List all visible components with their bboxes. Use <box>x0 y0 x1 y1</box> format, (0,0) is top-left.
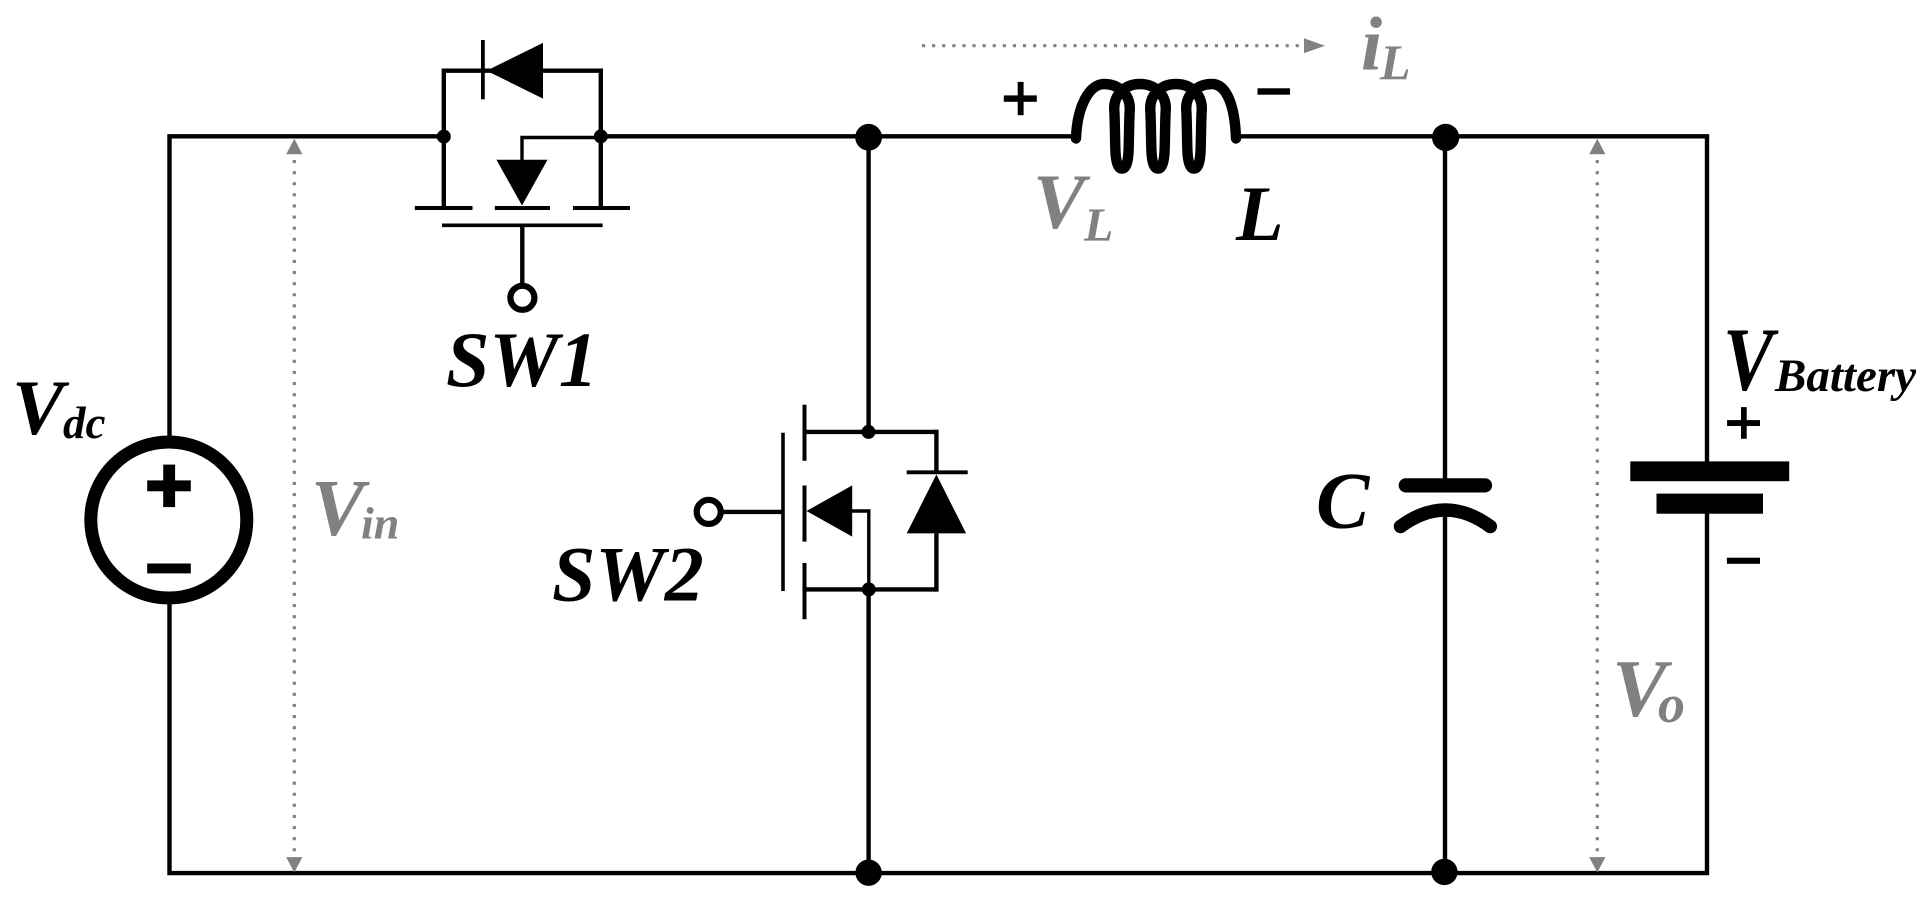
wire: capacitor column lower <box>1443 507 1447 872</box>
transistor SW1 (MOSFET with body diode) <box>415 40 630 310</box>
svg-text:C: C <box>1316 458 1371 546</box>
SW2 source contact bar <box>803 563 807 619</box>
SW2 gate lead <box>723 510 784 514</box>
svg-text:Battery: Battery <box>1774 350 1916 402</box>
transistor SW2 (MOSFET with body diode) <box>697 405 968 620</box>
SW1 body contact bar <box>495 206 550 210</box>
SW2 gate terminal circle <box>697 500 721 524</box>
iL dotted current arrow <box>922 38 1325 53</box>
wire: top rail right segment + right branch upper <box>1236 136 1707 461</box>
capacitor C <box>1399 478 1492 526</box>
SW1 right vertical lead <box>599 69 603 207</box>
capacitor curved bottom plate <box>1401 510 1491 527</box>
inductor plus sign <box>1004 82 1037 115</box>
svg-text:dc: dc <box>63 398 106 448</box>
Vo dotted measure arrow <box>1589 139 1605 873</box>
SW2 diode branch lower wire <box>934 533 938 591</box>
SW2 drain horizontal wire <box>805 430 937 434</box>
junction dot SW1 right <box>594 129 608 143</box>
SW2 body contact bar <box>803 486 807 542</box>
wire: top rail middle segment <box>601 134 1076 138</box>
inductor L coil <box>1076 84 1236 169</box>
SW1 diode branch wire <box>444 68 601 72</box>
wire: capacitor column upper <box>1443 137 1447 480</box>
svg-text:in: in <box>361 498 399 549</box>
junction dot SW1 left <box>437 130 451 144</box>
wire: SW2 column upper <box>866 136 870 432</box>
SW2 diode triangle <box>907 475 966 534</box>
wire: left branch top + top rail left segment <box>170 136 444 442</box>
SW1 body arrow <box>496 160 547 206</box>
SW2 diode cathode bar <box>907 470 968 474</box>
svg-text:SW2: SW2 <box>552 531 704 618</box>
voltage source Vdc <box>91 442 247 598</box>
SW1 body connection wire <box>522 138 600 162</box>
svg-text:V: V <box>1723 310 1779 410</box>
SW2 body connection wire <box>851 511 869 588</box>
SW1 diode cathode bar <box>481 40 485 99</box>
battery long plate <box>1630 461 1789 481</box>
node dot bottom rail at SW2 <box>855 860 881 886</box>
SW1 source contact bar <box>573 206 630 210</box>
SW2 drain contact bar <box>803 405 807 461</box>
inductor minus sign <box>1258 88 1291 94</box>
node dot top rail at capacitor <box>1432 124 1459 151</box>
wire: SW2 column lower <box>866 589 870 872</box>
junction dot SW2 drain <box>862 425 876 439</box>
SW1 gate lead <box>520 227 524 286</box>
node dot bottom rail at capacitor <box>1431 859 1457 885</box>
svg-text:L: L <box>1379 34 1411 90</box>
SW2 diode branch upper wire <box>934 430 938 471</box>
svg-text:o: o <box>1658 674 1685 734</box>
node dot top rail at SW2 <box>855 124 882 151</box>
wire: right branch lower + bottom rail + left branch lower <box>170 513 1708 873</box>
svg-text:V: V <box>12 364 70 451</box>
junction dot SW2 source <box>862 582 876 596</box>
svg-text:SW1: SW1 <box>446 316 598 403</box>
SW1 diode triangle <box>487 43 544 99</box>
battery minus sign <box>1727 558 1760 564</box>
battery short plate <box>1657 494 1764 514</box>
SW2 source horizontal wire <box>805 587 937 591</box>
svg-text:L: L <box>1083 199 1113 252</box>
battery V_Battery <box>1630 407 1789 564</box>
SW1 gate terminal circle <box>510 286 534 310</box>
SW2 gate bar <box>781 433 785 591</box>
SW2 body arrow <box>807 485 853 536</box>
svg-text:V: V <box>1033 158 1091 245</box>
svg-text:i: i <box>1361 2 1382 86</box>
svg-text:L: L <box>1235 170 1284 257</box>
capacitor top plate <box>1399 478 1492 492</box>
Vin dotted measure arrow <box>286 139 302 873</box>
SW1 drain contact bar <box>415 206 473 210</box>
SW1 gate bar <box>442 224 603 228</box>
SW1 left vertical lead <box>442 69 446 207</box>
battery plus sign <box>1727 420 1760 426</box>
